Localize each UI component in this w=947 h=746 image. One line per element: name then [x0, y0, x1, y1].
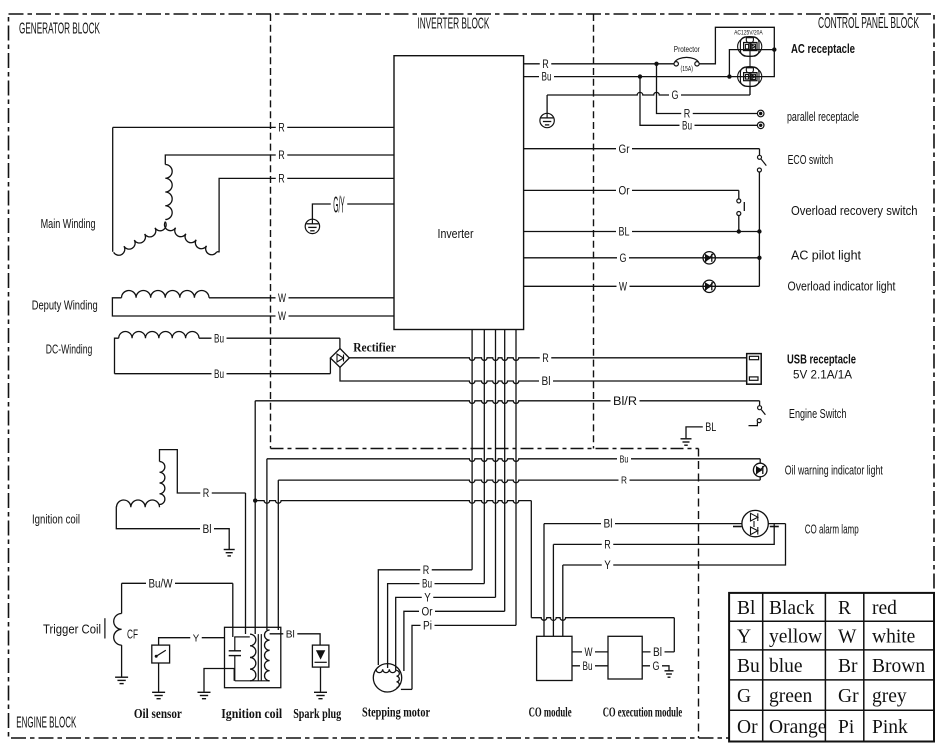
wire rectifier Bl output to USB	[340, 367, 349, 381]
wire Bl/R inverter kill to engine switch	[255, 401, 759, 404]
svg-text:white: white	[872, 627, 915, 648]
svg-text:Y: Y	[604, 560, 611, 572]
wire bundle from inverter bottom (5 wires)	[471, 330, 473, 570]
wire DC Bu bottom to rectifier	[115, 373, 331, 375]
svg-text:R: R	[278, 150, 285, 162]
capacitor C1	[234, 637, 236, 651]
svg-text:DC-Winding: DC-Winding	[46, 342, 93, 357]
USB receptacle J1	[747, 354, 762, 385]
svg-text:AC125V/20A: AC125V/20A	[734, 29, 763, 36]
svg-text:GENERATOR BLOCK: GENERATOR BLOCK	[19, 21, 100, 38]
svg-text:Br: Br	[838, 656, 858, 677]
svg-text:Engine Switch: Engine Switch	[789, 406, 847, 421]
svg-text:Spark plug: Spark plug	[293, 706, 341, 721]
svg-text:Deputy Winding: Deputy Winding	[32, 298, 98, 313]
svg-text:Y: Y	[737, 627, 751, 648]
svg-text:Or: Or	[422, 606, 433, 618]
CO module box	[537, 636, 572, 680]
svg-text:5V 2.1A/1A: 5V 2.1A/1A	[793, 368, 852, 382]
parallel receptacle pin R	[757, 110, 764, 117]
svg-text:Oil sensor: Oil sensor	[134, 706, 182, 721]
junction Bu	[638, 74, 642, 78]
block divider generator/inverter	[270, 14, 272, 449]
svg-text:Bl: Bl	[737, 598, 756, 619]
deputy winding coil	[121, 290, 208, 297]
svg-text:Protector: Protector	[674, 44, 700, 54]
svg-text:G: G	[672, 90, 679, 102]
wires into CO module	[543, 524, 545, 637]
wire R to CO alarm lamp (+)	[553, 524, 774, 545]
dc winding coil	[119, 332, 199, 339]
svg-text:Ignition coil: Ignition coil	[221, 706, 282, 721]
svg-text:ECO switch: ECO switch	[788, 153, 834, 167]
svg-text:Bu/W: Bu/W	[149, 578, 173, 590]
svg-text:Bl: Bl	[286, 629, 295, 640]
svg-text:Pi: Pi	[838, 717, 855, 738]
wire deputy winding W top	[112, 298, 394, 316]
main winding coil (star)	[165, 165, 172, 220]
svg-text:Overload indicator light: Overload indicator light	[788, 279, 896, 293]
svg-text:G: G	[620, 253, 627, 265]
wire BL from inverter	[524, 231, 760, 233]
CO module to exec: W	[572, 651, 608, 653]
wire Y oil sensor to ignition coil	[159, 638, 225, 645]
svg-text:Bl/R: Bl/R	[613, 396, 637, 408]
spark plug	[312, 645, 329, 667]
bottom rail	[235, 680, 270, 682]
wire R to parallel receptacle	[657, 64, 758, 114]
svg-text:W: W	[585, 647, 593, 659]
junction R	[654, 62, 658, 66]
primary coil	[250, 634, 256, 681]
svg-text:R: R	[542, 59, 549, 71]
ground wire into box	[204, 669, 234, 692]
svg-text:G: G	[653, 661, 660, 673]
svg-text:Rectifier: Rectifier	[353, 341, 396, 355]
svg-text:green: green	[769, 686, 813, 707]
parallel receptacle pin Bu	[757, 122, 764, 129]
AC receptacle outlet lower	[738, 67, 762, 87]
block divider inverter/control-panel	[593, 14, 595, 449]
wire ECO to BL junction	[758, 172, 760, 232]
svg-text:Bu: Bu	[583, 661, 593, 673]
svg-text:Bu: Bu	[214, 369, 224, 381]
rectifier D1 (diamond with diode)	[330, 349, 349, 368]
svg-text:Gr: Gr	[619, 144, 630, 156]
svg-text:R: R	[621, 476, 627, 487]
svg-text:Bl: Bl	[653, 647, 662, 659]
wire Bl secondary to spark plug	[270, 634, 321, 645]
wire Bu/W trigger coil	[122, 582, 233, 584]
svg-text:Or: Or	[619, 186, 630, 198]
wire G ground to receptacle	[546, 95, 548, 113]
ECO switch S1	[758, 155, 762, 159]
svg-text:R: R	[423, 565, 430, 577]
svg-text:yellow: yellow	[769, 627, 822, 648]
ignition coil transformer box	[225, 627, 281, 687]
wire Or to overload recovery switch	[524, 189, 739, 191]
protector (15A) breaker	[674, 62, 678, 66]
CO execution module box	[608, 636, 642, 679]
junction kill/CO wire	[253, 498, 257, 502]
svg-text:Bl: Bl	[542, 376, 551, 388]
svg-text:Pi: Pi	[423, 621, 432, 633]
svg-text:R: R	[838, 598, 851, 619]
svg-text:CO alarm lamp: CO alarm lamp	[805, 523, 859, 537]
wire DC Bu top to rectifier	[115, 338, 119, 374]
wire ignition coil Bl to ground	[116, 507, 229, 549]
wire W to overload indicator light	[524, 285, 760, 287]
ground (circled) for G/Y	[305, 219, 319, 233]
engine switch S3	[758, 406, 762, 410]
svg-text:INVERTER BLOCK: INVERTER BLOCK	[417, 16, 489, 33]
svg-text:CO module: CO module	[529, 705, 572, 720]
wire R to oil warning light	[277, 480, 279, 630]
svg-text:Bu: Bu	[737, 656, 760, 677]
svg-text:W: W	[838, 627, 857, 648]
wire Bu to parallel receptacle	[640, 77, 757, 126]
svg-text:Bu: Bu	[682, 120, 692, 132]
svg-text:Y: Y	[193, 633, 200, 644]
vertical link BL-G-W	[758, 232, 760, 287]
svg-text:Bl: Bl	[203, 524, 212, 536]
svg-text:CF: CF	[127, 628, 138, 642]
stepping motor M1	[373, 664, 401, 692]
wire G/Y to ground	[312, 204, 394, 219]
minus mark	[733, 526, 742, 528]
svg-text:Bu: Bu	[214, 333, 224, 345]
svg-text:R: R	[542, 353, 549, 365]
AC pilot light DS1	[703, 252, 715, 264]
ground stems between outlets	[749, 43, 751, 67]
stepping motor wires	[378, 570, 472, 665]
wire Gr to ECO switch	[524, 148, 760, 150]
svg-text:W: W	[619, 281, 627, 293]
junction top-right	[772, 47, 776, 51]
svg-text:blue: blue	[769, 656, 803, 677]
svg-text:CO execution module: CO execution module	[603, 705, 683, 720]
ground trigger coil	[115, 676, 128, 678]
svg-text:Gr: Gr	[838, 686, 859, 707]
ground (circled) for G	[540, 113, 554, 127]
overload indicator light DS2	[703, 280, 715, 292]
svg-text:ENGINE BLOCK: ENGINE BLOCK	[16, 715, 76, 732]
wire deputy winding W bottom	[276, 309, 289, 323]
ground for BL stub	[681, 438, 692, 440]
svg-text:R: R	[278, 174, 285, 186]
oil sensor	[152, 645, 170, 663]
wire main winding phase 1 (R)	[112, 127, 114, 251]
wire main winding phase 3 (R)	[217, 178, 394, 251]
wire rectifier R output to USB	[349, 358, 746, 361]
svg-text:Bu: Bu	[542, 72, 552, 84]
wire Y to CO alarm lamp	[563, 524, 786, 565]
svg-text:BL: BL	[619, 227, 630, 239]
svg-text:Black: Black	[769, 598, 815, 619]
color legend table	[729, 593, 934, 742]
svg-text:R: R	[203, 488, 210, 500]
svg-text:Pink: Pink	[872, 717, 908, 738]
svg-text:grey: grey	[872, 686, 907, 707]
CO exec G out to ground	[642, 666, 669, 671]
svg-text:G: G	[737, 686, 751, 707]
wire BL stub to ground near engine switch	[686, 427, 705, 438]
svg-text:Bl: Bl	[604, 519, 613, 531]
wire Bu to oil warning light	[266, 459, 268, 630]
svg-text:Overload recovery switch: Overload recovery switch	[791, 204, 918, 218]
wire main winding phase 2 (R)	[165, 155, 394, 165]
wire kill to CO execution module	[255, 501, 531, 504]
svg-text:Orange: Orange	[769, 717, 826, 738]
CO module to exec: Bu	[572, 665, 608, 667]
ground ignition coil	[224, 549, 235, 551]
svg-text:Or: Or	[737, 717, 758, 738]
svg-text:(15A): (15A)	[681, 64, 694, 73]
svg-text:Bu: Bu	[620, 454, 629, 465]
AC receptacle outlet upper	[738, 37, 762, 57]
core lines	[257, 634, 259, 681]
wire oil sensor to ground	[158, 663, 160, 692]
block divider engine right	[698, 449, 700, 739]
svg-text:R: R	[278, 123, 285, 135]
svg-text:AC pilot light: AC pilot light	[791, 249, 862, 263]
wire Bl to CO alarm lamp	[544, 523, 742, 525]
wire ignition coil R down	[245, 493, 247, 634]
svg-text:Ignition coil: Ignition coil	[32, 512, 80, 527]
svg-text:Bu: Bu	[422, 579, 432, 591]
wire Bu inverter to receptacle	[524, 76, 743, 78]
svg-text:USB receptacle: USB receptacle	[787, 353, 856, 367]
ignition source coil	[160, 462, 165, 505]
wire G to AC pilot light	[524, 257, 760, 259]
wire R inverter to protector	[524, 63, 674, 65]
CO alarm lamp DS4	[742, 510, 768, 536]
svg-text:Stepping motor: Stepping motor	[362, 705, 430, 720]
svg-text:Trigger Coil: Trigger Coil	[43, 622, 101, 637]
svg-text:parallel receptacle: parallel receptacle	[787, 110, 859, 124]
svg-text:Oil warning indicator light: Oil warning indicator light	[785, 464, 883, 478]
inner top rail	[234, 636, 250, 638]
svg-text:Main Winding: Main Winding	[41, 216, 96, 231]
svg-text:W: W	[278, 311, 286, 323]
svg-text:W: W	[278, 293, 286, 305]
overload recovery switch S2	[737, 199, 741, 203]
block divider engine top	[271, 448, 699, 450]
svg-text:Y: Y	[424, 593, 431, 605]
oil warning indicator light DS3	[753, 463, 767, 477]
plus mark	[770, 526, 779, 528]
svg-text:G/Y: G/Y	[333, 191, 345, 217]
svg-text:CONTROL PANEL BLOCK: CONTROL PANEL BLOCK	[818, 15, 919, 32]
svg-text:red: red	[872, 598, 897, 619]
wire protector to receptacle top	[699, 27, 774, 76]
trigger coil	[121, 583, 123, 613]
svg-text:BL: BL	[705, 422, 716, 434]
secondary coil	[265, 630, 270, 681]
CO exec Bl out	[642, 651, 674, 653]
wire kill vertical from Bl/R to ignition coil	[254, 401, 256, 634]
inverter U1 box	[394, 56, 524, 330]
svg-text:AC receptacle: AC receptacle	[791, 42, 855, 56]
svg-text:Inverter: Inverter	[438, 227, 474, 241]
svg-text:R: R	[604, 540, 611, 552]
svg-text:Brown: Brown	[872, 656, 925, 677]
